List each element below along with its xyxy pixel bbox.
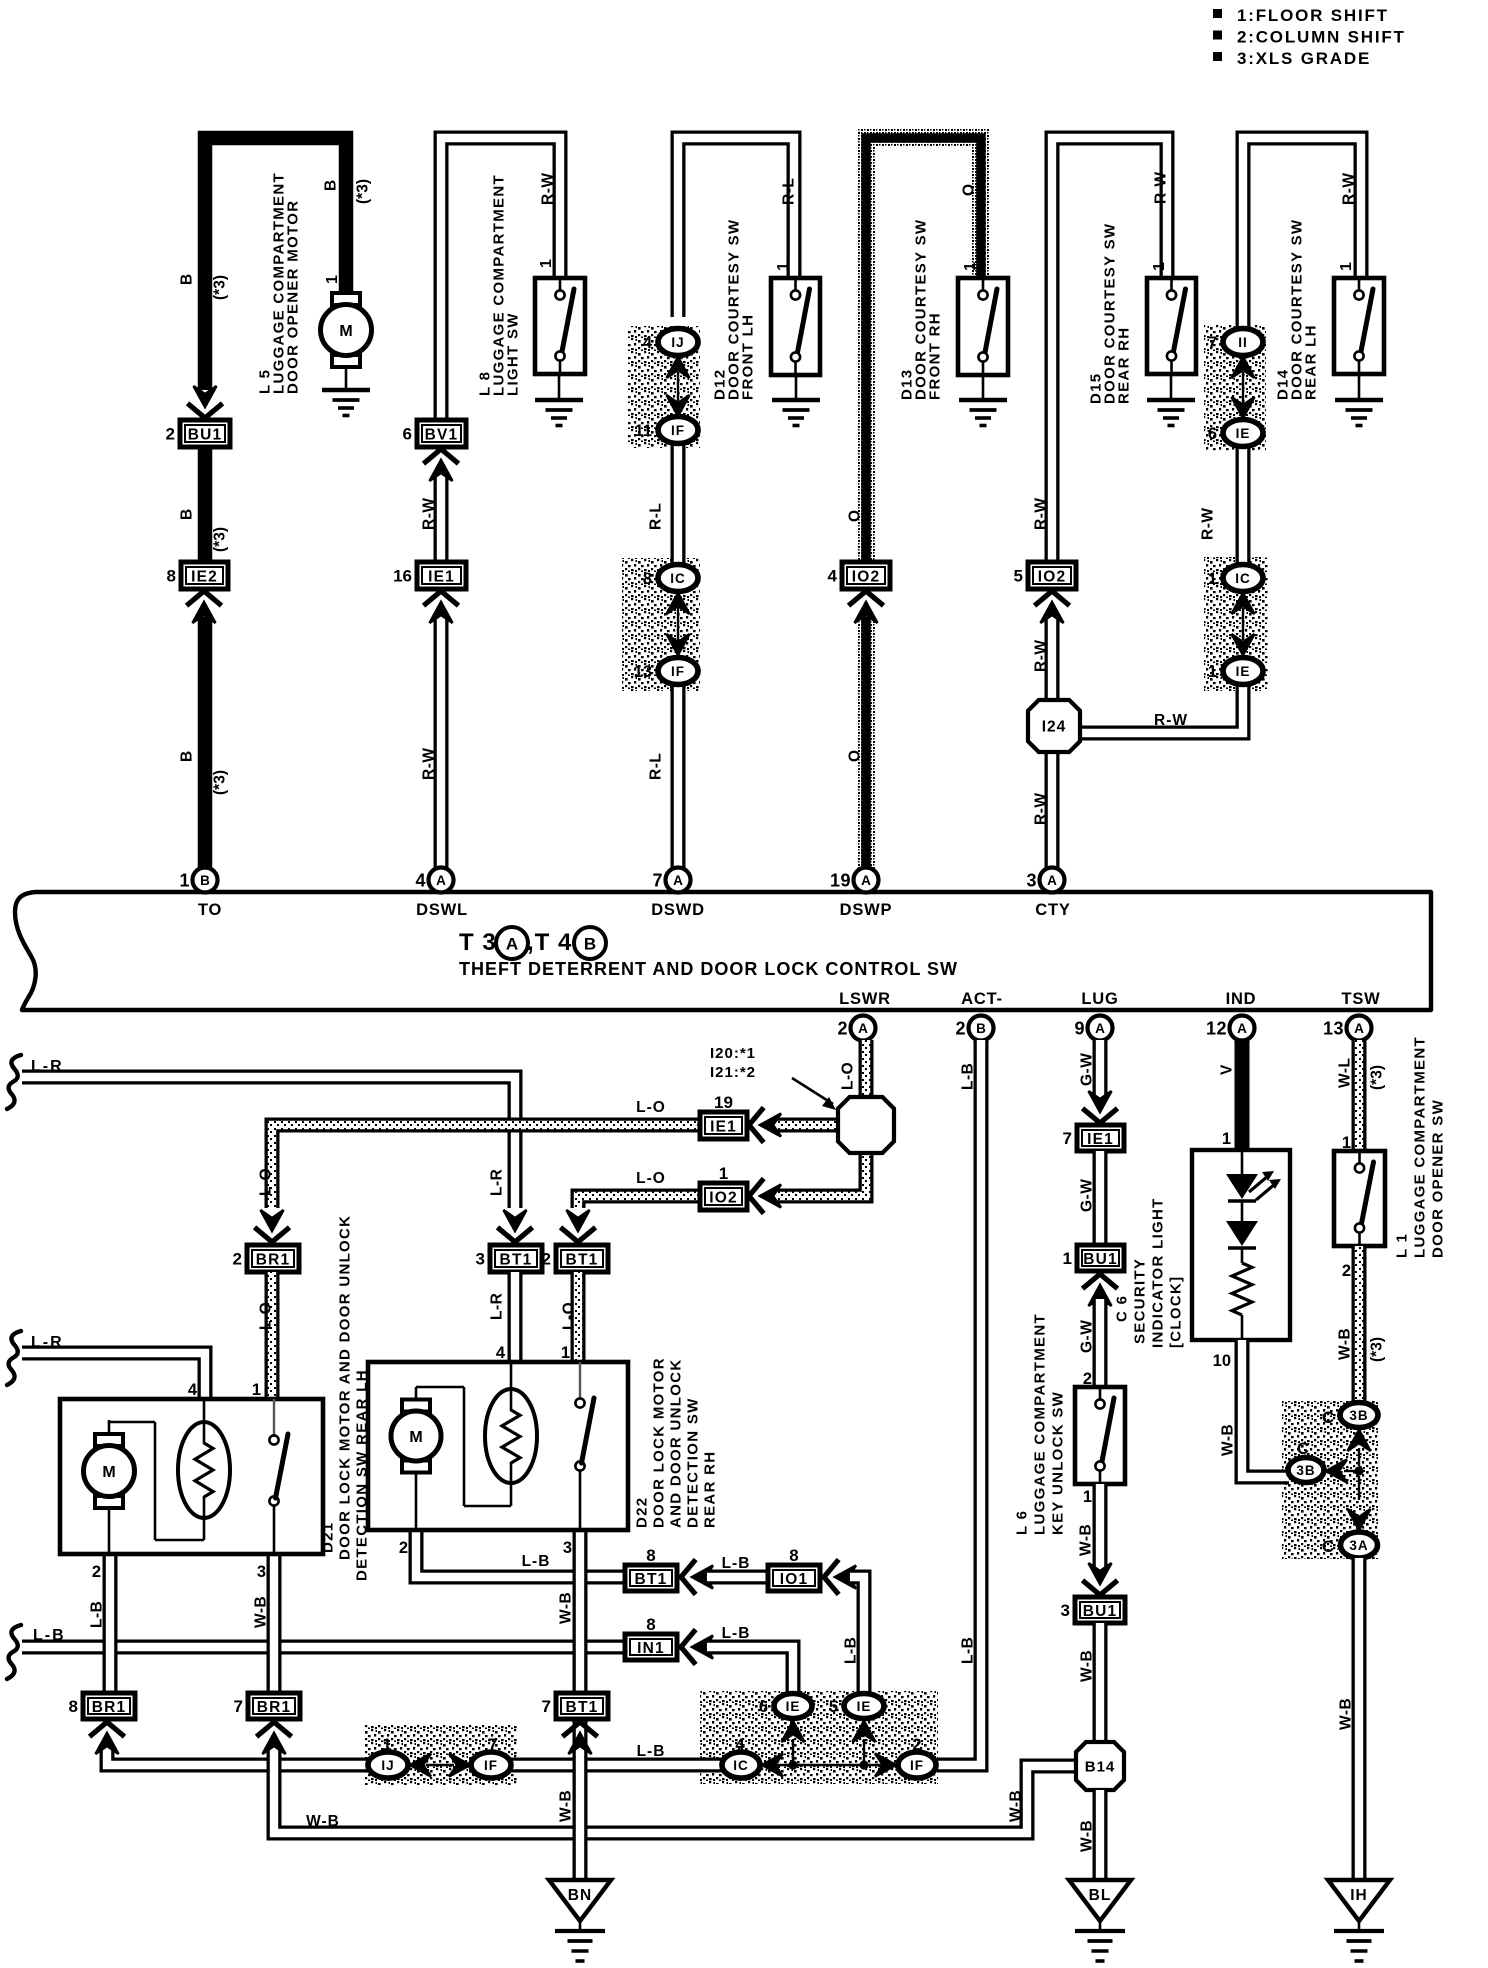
arrow below 1 BU1 [1085, 1274, 1116, 1287]
svg-text:3: 3 [563, 1539, 572, 1557]
svg-text:BN: BN [568, 1887, 592, 1904]
svg-text:A: A [436, 873, 446, 888]
svg-text:DSWL: DSWL [416, 901, 468, 919]
pin 13(A) bottom [1323, 1016, 1372, 1041]
svg-text:G-W: G-W [1079, 1179, 1096, 1212]
wire L-O LSWR to octagon - stippled [859, 1040, 874, 1098]
shade col3 lower IC-IF [622, 558, 700, 691]
wire W-L TSW to L1 - stippled [1352, 1040, 1367, 1152]
wire W-B C6 to C3B - hollow [1242, 1340, 1289, 1477]
svg-text:8: 8 [646, 1615, 655, 1634]
arrow below IE2 [189, 591, 220, 604]
svg-text:B14: B14 [1085, 1759, 1116, 1776]
svg-text:REAR RH: REAR RH [701, 1451, 718, 1528]
svg-text:1: 1 [382, 1736, 391, 1754]
svg-text:IO2: IO2 [709, 1190, 738, 1207]
svg-text:L-O: L-O [636, 1170, 666, 1187]
svg-text:T 3: T 3 [459, 929, 497, 956]
svg-text:1:FLOOR SHIFT: 1:FLOOR SHIFT [1237, 6, 1389, 25]
ground BL [1069, 1880, 1131, 1961]
svg-text:I20:*1: I20:*1 [710, 1045, 756, 1062]
svg-text:B: B [179, 509, 196, 520]
svg-text:I21:*2: I21:*2 [710, 1064, 756, 1081]
svg-text:DETECTION SW: DETECTION SW [684, 1397, 701, 1528]
svg-text:B: B [179, 751, 196, 762]
wire L-O BT1 to D22 pin1 - stippled [571, 1272, 586, 1361]
connector C 3B upper [1340, 1403, 1378, 1428]
svg-text:IC: IC [1235, 571, 1251, 586]
svg-text:5: 5 [829, 1698, 838, 1716]
connector 7 II [1208, 329, 1263, 356]
svg-text:1: 1 [1083, 1488, 1092, 1506]
shade C3B-C3A [1282, 1401, 1379, 1559]
svg-text:CTY: CTY [1035, 901, 1070, 919]
connector 8 BT1 bottom [625, 1546, 677, 1591]
svg-text:R-W: R-W [421, 748, 438, 781]
switch in D21 [269, 1435, 278, 1444]
junction connector I24 [1028, 700, 1080, 752]
arrow into 3 BU1 [1085, 1582, 1116, 1595]
svg-text:BR1: BR1 [257, 1699, 292, 1716]
connector 7 BT1 bottom [542, 1693, 608, 1719]
svg-text:IF: IF [671, 423, 685, 438]
shade col6 upper II-IE [1204, 325, 1266, 451]
connector 8 IO1 [768, 1546, 820, 1591]
wire W-B BU1 to B14 - hollow [1093, 1623, 1108, 1743]
svg-text:9: 9 [1074, 1019, 1085, 1039]
svg-text:A: A [673, 873, 683, 888]
LED 2 [1226, 1221, 1258, 1246]
svg-text:W-B: W-B [558, 1592, 575, 1624]
svg-text:1: 1 [179, 871, 190, 891]
detection resistor oval in D22 [485, 1389, 537, 1483]
control unit T3/T4 theft deterrent and door lock control sw box [15, 892, 1431, 1010]
svg-text:R-W: R-W [1033, 498, 1050, 531]
svg-text:BT1: BT1 [500, 1251, 533, 1268]
connector 4 IJ [643, 329, 698, 356]
svg-text:R-W: R-W [1153, 172, 1170, 205]
svg-text:W-B: W-B [1078, 1524, 1095, 1556]
svg-text:1: 1 [252, 1381, 261, 1399]
svg-text:ACT-: ACT- [961, 990, 1003, 1008]
svg-text:B: B [976, 1021, 986, 1036]
svg-text:G-W: G-W [1079, 1320, 1096, 1353]
connector 6 IE col6 [1208, 420, 1263, 447]
connector 2 BU1 [166, 420, 230, 447]
wire R-W DSWL column L8 loop - hollow [441, 138, 560, 420]
svg-text:L-B: L-B [522, 1553, 551, 1570]
svg-text:LSWR: LSWR [839, 990, 891, 1008]
wire W-B D21 pin3 to BR1 - hollow [267, 1554, 282, 1694]
svg-text:SECURITY: SECURITY [1131, 1258, 1148, 1344]
pin 4(A) top [415, 868, 453, 893]
svg-text:C 6: C 6 [1113, 1295, 1130, 1322]
wire L-O from IE1 to BR1 - stippled [272, 1125, 700, 1208]
svg-text:C: C [1322, 1409, 1334, 1427]
pin 2(A) bottom [837, 1016, 875, 1041]
motor M in D22 [391, 1400, 441, 1473]
svg-text:R-W: R-W [1200, 508, 1217, 541]
svg-text:R-W: R-W [421, 498, 438, 531]
wire G-W IE1 to BU1 - hollow [1093, 1151, 1108, 1245]
pin 1(B) top [179, 868, 217, 893]
svg-text:L-O: L-O [840, 1062, 857, 1090]
svg-text:8: 8 [167, 567, 176, 586]
svg-text:THEFT DETERRENT AND DOOR LOCK: THEFT DETERRENT AND DOOR LOCK CONTROL SW [459, 959, 958, 979]
wire W-B 7BR1 to B14 - hollow [274, 1744, 1077, 1833]
svg-text:13: 13 [1323, 1019, 1344, 1039]
svg-text:M: M [339, 323, 352, 340]
svg-text:TO: TO [198, 901, 222, 919]
connector 5 IE bottom [829, 1694, 884, 1719]
wire G-W LUG to IE1 - hollow [1093, 1040, 1108, 1098]
connector 2 BR1 [233, 1245, 299, 1272]
svg-text:4: 4 [735, 1736, 745, 1754]
svg-text:A: A [1095, 1021, 1105, 1036]
svg-text:1: 1 [1208, 570, 1217, 588]
svg-text:10: 10 [1213, 1352, 1231, 1370]
svg-text:O: O [847, 510, 864, 522]
svg-text:19: 19 [714, 1093, 733, 1112]
svg-text:7: 7 [1208, 334, 1217, 352]
svg-text:B: B [323, 180, 340, 191]
svg-text:8: 8 [643, 570, 652, 588]
svg-text:R-W: R-W [1033, 793, 1050, 826]
wire R-L DSWD lower segments [671, 442, 686, 565]
svg-text:L-B: L-B [722, 1555, 751, 1572]
svg-text:1: 1 [1222, 1130, 1231, 1148]
connector 5 IO2 [1014, 562, 1076, 589]
svg-text:IF: IF [484, 1758, 498, 1773]
svg-text:(*3): (*3) [212, 770, 229, 795]
wire L-R from break to BT1 - hollow [7, 1055, 21, 1109]
junction connector B14 [1076, 1742, 1124, 1790]
svg-text:2: 2 [542, 1250, 551, 1269]
svg-text:DSWD: DSWD [651, 901, 705, 919]
svg-text:1: 1 [1151, 262, 1168, 271]
svg-text:IO2: IO2 [852, 568, 881, 585]
connector C 3A [1341, 1532, 1378, 1558]
svg-text:REAR LH: REAR LH [1302, 324, 1319, 400]
svg-text:W-B: W-B [306, 1813, 340, 1830]
ground under L5 motor [322, 367, 370, 416]
svg-text:IE1: IE1 [428, 568, 455, 585]
junction arrows II-IE [1232, 357, 1255, 378]
connector 8 IC [643, 565, 698, 592]
arrow right of 8 BT1 [681, 1562, 694, 1593]
arrow into 19 IE1 [749, 1110, 762, 1141]
connector 16 IE1 [393, 562, 466, 589]
svg-text:W-B: W-B [1338, 1698, 1355, 1730]
svg-text:8: 8 [69, 1697, 78, 1716]
wire L-B D21 pin2 to BR1 - hollow [103, 1554, 118, 1694]
svg-text:W-B: W-B [1008, 1790, 1025, 1822]
wire L-B IF to IC segment - hollow [511, 1758, 723, 1773]
svg-text:L-B: L-B [722, 1625, 751, 1642]
connector 11 IF [635, 417, 698, 444]
svg-text:IE1: IE1 [1087, 1131, 1114, 1148]
svg-text:A: A [858, 1021, 868, 1036]
svg-text:I24: I24 [1042, 719, 1067, 736]
wire R-W rear LH column D14 loop - hollow [1243, 138, 1361, 329]
svg-text:M: M [102, 1464, 115, 1481]
svg-text:IJ: IJ [671, 335, 684, 350]
arrow below 8 BR1 [92, 1722, 123, 1735]
svg-text:DOOR LOCK MOTOR AND DOOR UNLOC: DOOR LOCK MOTOR AND DOOR UNLOCK [336, 1215, 353, 1560]
wire O DSWP column D13 loop - gray stippled [866, 138, 981, 562]
svg-text:C: C [1322, 1538, 1334, 1556]
svg-text:BT1: BT1 [566, 1699, 599, 1716]
connector 1 BU1 right [1063, 1245, 1124, 1271]
svg-text:,T 4: ,T 4 [527, 929, 572, 956]
svg-text:W-B: W-B [1220, 1424, 1237, 1456]
svg-text:IE2: IE2 [191, 568, 218, 585]
wire L-B bottom from 8BR1 to IJ - hollow [107, 1744, 369, 1765]
svg-text:7: 7 [1063, 1129, 1072, 1148]
svg-text:L-O: L-O [636, 1099, 666, 1116]
switch L1 luggage compartment door opener sw [1334, 1151, 1385, 1246]
arrow below IO2 col4 [851, 591, 882, 604]
arrow to left C3B [1326, 1460, 1347, 1483]
svg-text:R-W: R-W [1154, 712, 1188, 729]
security indicator light C6 box [1192, 1150, 1290, 1340]
svg-text:B: B [200, 873, 210, 888]
svg-text:IE1: IE1 [710, 1119, 737, 1136]
svg-text:LIGHT SW: LIGHT SW [504, 312, 521, 396]
svg-text:IN1: IN1 [637, 1640, 665, 1657]
arrow below IE1 [426, 591, 457, 604]
connector 4 IO2 [828, 562, 890, 589]
pin 7(A) top [652, 868, 690, 893]
shade col6 lower IC-IE [1204, 557, 1268, 691]
pin 9(A) bottom [1074, 1016, 1112, 1041]
svg-text:LUG: LUG [1081, 990, 1118, 1008]
svg-text:A: A [506, 935, 518, 954]
wire L-B IN1 to 6IE - hollow [707, 1647, 793, 1693]
svg-text:[CLOCK]: [CLOCK] [1167, 1276, 1184, 1348]
svg-text:1: 1 [962, 262, 979, 271]
svg-text:IC: IC [670, 571, 686, 586]
svg-text:LUGGAGE COMPARTMENT: LUGGAGE COMPARTMENT [1031, 1313, 1048, 1535]
svg-text:7: 7 [652, 871, 663, 891]
svg-text:L-O: L-O [561, 1302, 578, 1330]
door lock motor D22 box rear RH [368, 1362, 628, 1530]
svg-text:INDICATOR LIGHT: INDICATOR LIGHT [1149, 1197, 1166, 1348]
svg-text:IJ: IJ [381, 1758, 394, 1773]
svg-text:7: 7 [542, 1697, 551, 1716]
switch D13 door courtesy sw front RH [958, 278, 1008, 375]
thin junction line IC to IF with dots [760, 1764, 898, 1767]
svg-text:1: 1 [1063, 1249, 1072, 1268]
svg-text:R-W: R-W [540, 173, 557, 206]
ground under L8 [535, 374, 583, 426]
connector C 3B left [1288, 1458, 1324, 1483]
junction arrows IJ-IF [667, 357, 690, 378]
wire L-R from break2 to D21 pin4 - hollow [7, 1331, 21, 1385]
svg-text:G-W: G-W [1079, 1053, 1096, 1086]
svg-text:3:XLS GRADE: 3:XLS GRADE [1237, 49, 1371, 68]
svg-text:M: M [409, 1429, 422, 1446]
svg-text:1: 1 [1338, 262, 1355, 271]
svg-text:IE: IE [1236, 426, 1251, 441]
svg-text:W-B: W-B [253, 1596, 270, 1628]
arrow into 1 IO2 mid [749, 1181, 762, 1212]
wire L-B IO1 to 5IE - hollow [850, 1577, 864, 1693]
svg-text:REAR RH: REAR RH [1115, 327, 1132, 404]
connector 6 IE bottom [759, 1694, 812, 1719]
ground under D13 [959, 375, 1007, 426]
svg-text:KEY UNLOCK SW: KEY UNLOCK SW [1049, 1391, 1066, 1535]
svg-text:2: 2 [912, 1736, 921, 1754]
svg-text:C: C [1297, 1440, 1309, 1458]
pin 12(A) bottom [1206, 1016, 1255, 1041]
svg-text:AND DOOR UNLOCK: AND DOOR UNLOCK [667, 1359, 684, 1529]
wire V IND to C6 - solid [1235, 1040, 1250, 1152]
svg-text:1: 1 [324, 275, 341, 284]
arrow right of 8 IO1 [824, 1562, 837, 1593]
svg-text:2: 2 [92, 1563, 101, 1581]
connector 4 IC bottom [722, 1752, 760, 1778]
svg-text:IC: IC [733, 1758, 749, 1773]
connector 8 IN1 [625, 1615, 677, 1660]
svg-text:IH: IH [1350, 1887, 1368, 1904]
svg-text:L-R: L-R [489, 1293, 506, 1320]
wire W-B L6 to BU1 - hollow [1093, 1484, 1108, 1568]
arrow below C3B [1348, 1430, 1371, 1451]
svg-text:7: 7 [234, 1697, 243, 1716]
svg-text:IF: IF [671, 664, 685, 679]
svg-text:1: 1 [561, 1344, 570, 1362]
wire B (*3) TO column L5 loop - solid [205, 138, 346, 390]
arrow into BU1 [190, 405, 221, 418]
svg-text:BU1: BU1 [1083, 1603, 1118, 1620]
svg-text:O: O [847, 750, 864, 762]
svg-text:3A: 3A [1349, 1538, 1368, 1553]
wire L-O from IO2 to BT1 - stippled [578, 1196, 700, 1208]
arrow below 7 BT1 [565, 1722, 596, 1735]
svg-text:W-B: W-B [1079, 1820, 1096, 1852]
ground under D14 [1335, 374, 1383, 426]
svg-text:1: 1 [719, 1164, 728, 1183]
svg-text:IE: IE [857, 1699, 872, 1714]
ground under D12 [772, 375, 820, 426]
svg-text:W-B: W-B [1079, 1650, 1096, 1682]
svg-text:3B: 3B [1296, 1463, 1315, 1478]
svg-text:TSW: TSW [1341, 990, 1380, 1008]
svg-text:IND: IND [1226, 990, 1257, 1008]
connector 7 IF bottom [471, 1752, 511, 1778]
svg-text:FRONT LH: FRONT LH [739, 314, 756, 400]
switch D12 door courtesy sw front LH [771, 278, 820, 375]
svg-text:3: 3 [257, 1563, 266, 1581]
svg-text:BV1: BV1 [425, 426, 459, 443]
connector 7 IE1 right [1063, 1125, 1124, 1151]
svg-text:IF: IF [910, 1758, 924, 1773]
svg-text:W-B: W-B [1337, 1328, 1354, 1360]
arrow into 3 BT1 [500, 1229, 531, 1242]
svg-text:LUGGAGE COMPARTMENT: LUGGAGE COMPARTMENT [1411, 1036, 1428, 1258]
junction arrows IC-IE col6 [1232, 593, 1255, 614]
svg-text:R-W: R-W [1033, 640, 1050, 673]
ground under D15 [1147, 374, 1195, 426]
svg-text:BR1: BR1 [92, 1699, 127, 1716]
svg-text:3: 3 [1026, 871, 1037, 891]
octagon body [838, 1097, 894, 1153]
svg-text:6: 6 [1208, 425, 1217, 443]
svg-text:4: 4 [643, 334, 653, 352]
svg-text:IO1: IO1 [780, 1571, 809, 1588]
shade col3 upper IJ-IF [628, 326, 700, 448]
wire L-B BT1 to IO1 [707, 1570, 768, 1585]
connector 7 BR1 bottom [234, 1693, 300, 1719]
svg-text:IE: IE [1236, 664, 1251, 679]
title T3(A) T4(B) [459, 927, 606, 959]
wire L-B break to IN1 - hollow [7, 1625, 21, 1679]
wire L-R BT1 to D22 pin4 - hollow [508, 1272, 523, 1361]
arrow into 2 BR1 [257, 1229, 288, 1242]
svg-text:BL: BL [1089, 1887, 1112, 1904]
connector 1 IO2 mid [700, 1164, 747, 1210]
junction connector I20/I21 octagon [777, 1118, 845, 1133]
arrow right of 8 IN1 [681, 1632, 694, 1663]
svg-text:O: O [961, 184, 978, 196]
wire L-B ACT- long vertical - hollow [937, 1040, 981, 1765]
motor M in D21 [84, 1434, 135, 1508]
svg-text:12: 12 [1206, 1019, 1227, 1039]
arrow up into 6IE [782, 1721, 805, 1742]
wire L-B D22 pin2 to BT1 - hollow [416, 1530, 625, 1577]
wire W-B D22 pin3 down to BN - hollow [573, 1530, 588, 1880]
svg-text:IE: IE [786, 1699, 801, 1714]
svg-text:(*3): (*3) [212, 275, 229, 300]
svg-text:(*3): (*3) [1369, 1337, 1386, 1362]
wire W-B C3A to IH ground - hollow [1352, 1558, 1367, 1880]
svg-text:(*3): (*3) [1369, 1065, 1386, 1090]
resistor in C6 [1232, 1263, 1252, 1315]
connector 19 IE1 mid [700, 1093, 747, 1139]
svg-text:4: 4 [496, 1344, 506, 1362]
wire L-O BR1 to D21 pin1 - stippled [265, 1272, 280, 1398]
svg-text:L-B: L-B [89, 1601, 106, 1628]
svg-text:R-W: R-W [1341, 173, 1358, 206]
arrow left into IC [762, 1754, 783, 1777]
switch L6 luggage compartment key unlock sw [1075, 1387, 1125, 1484]
wire R-W from IE to I24 - hollow [1078, 684, 1243, 733]
connector 6 BV1 [403, 420, 466, 447]
svg-text:A: A [861, 873, 871, 888]
svg-text:19: 19 [830, 871, 851, 891]
switch D14 door courtesy sw rear LH [1334, 278, 1384, 374]
junction dot C3B branch [1354, 1466, 1363, 1475]
svg-text:A: A [1237, 1021, 1247, 1036]
svg-text:W-B: W-B [558, 1790, 575, 1822]
arrow into C3A [1358, 1476, 1360, 1500]
svg-text:2:COLUMN SHIFT: 2:COLUMN SHIFT [1237, 28, 1406, 47]
svg-text:7: 7 [488, 1736, 497, 1754]
svg-text:1: 1 [1208, 663, 1217, 681]
svg-text:3: 3 [476, 1250, 485, 1269]
svg-text:BT1: BT1 [566, 1251, 599, 1268]
svg-text:DOOR OPENER SW: DOOR OPENER SW [1429, 1099, 1446, 1258]
arrow right into IF [875, 1754, 896, 1777]
connector 3 BU1 [1061, 1597, 1125, 1623]
svg-text:A: A [1354, 1021, 1364, 1036]
connector 2 IF bottom2 [898, 1752, 936, 1778]
svg-text:B: B [179, 274, 196, 285]
connector 13 IF [634, 658, 698, 685]
svg-text:13: 13 [634, 663, 652, 681]
arrow below BV1 [426, 449, 457, 462]
